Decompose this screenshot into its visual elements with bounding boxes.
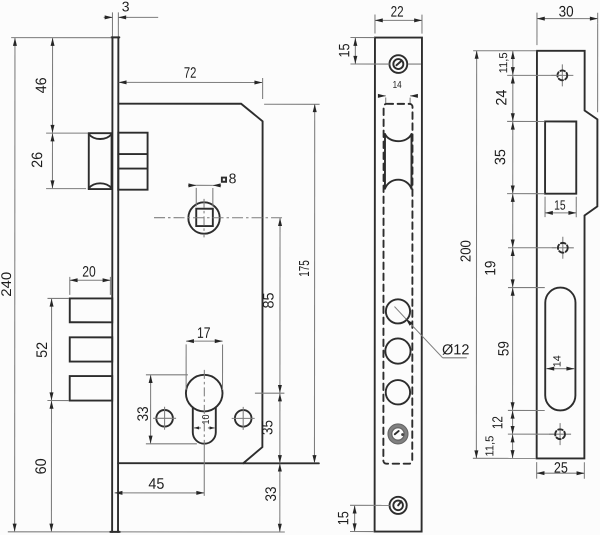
svg-text:240: 240: [0, 272, 14, 297]
svg-text:8: 8: [229, 170, 237, 186]
svg-text:200: 200: [459, 240, 475, 262]
svg-text:22: 22: [391, 4, 404, 21]
svg-text:20: 20: [82, 264, 96, 281]
svg-text:52: 52: [34, 342, 51, 358]
svg-text:33: 33: [135, 406, 152, 421]
svg-text:30: 30: [559, 3, 574, 20]
svg-text:72: 72: [184, 65, 197, 82]
svg-text:19: 19: [482, 261, 499, 276]
svg-text:35: 35: [492, 149, 509, 165]
svg-text:24: 24: [493, 90, 510, 106]
svg-text:46: 46: [33, 77, 50, 93]
svg-text:3: 3: [122, 0, 130, 14]
svg-text:15: 15: [554, 198, 566, 213]
svg-text:10: 10: [201, 414, 212, 424]
svg-text:85: 85: [260, 292, 277, 308]
svg-text:26: 26: [29, 152, 46, 168]
svg-text:14: 14: [552, 355, 564, 367]
svg-text:15: 15: [336, 44, 353, 58]
svg-text:175: 175: [297, 260, 313, 277]
svg-text:60: 60: [33, 458, 50, 474]
svg-text:11,5: 11,5: [498, 52, 510, 73]
svg-text:11,5: 11,5: [484, 436, 496, 457]
svg-text:33: 33: [263, 486, 280, 501]
svg-text:59: 59: [495, 341, 512, 356]
svg-text:14: 14: [393, 80, 402, 91]
svg-text:12: 12: [490, 416, 506, 429]
svg-text:25: 25: [554, 460, 568, 477]
svg-text:45: 45: [148, 476, 164, 493]
svg-text:17: 17: [197, 325, 211, 342]
svg-text:15: 15: [335, 511, 352, 525]
svg-text:Ø12: Ø12: [442, 342, 469, 358]
svg-text:35: 35: [259, 420, 276, 435]
